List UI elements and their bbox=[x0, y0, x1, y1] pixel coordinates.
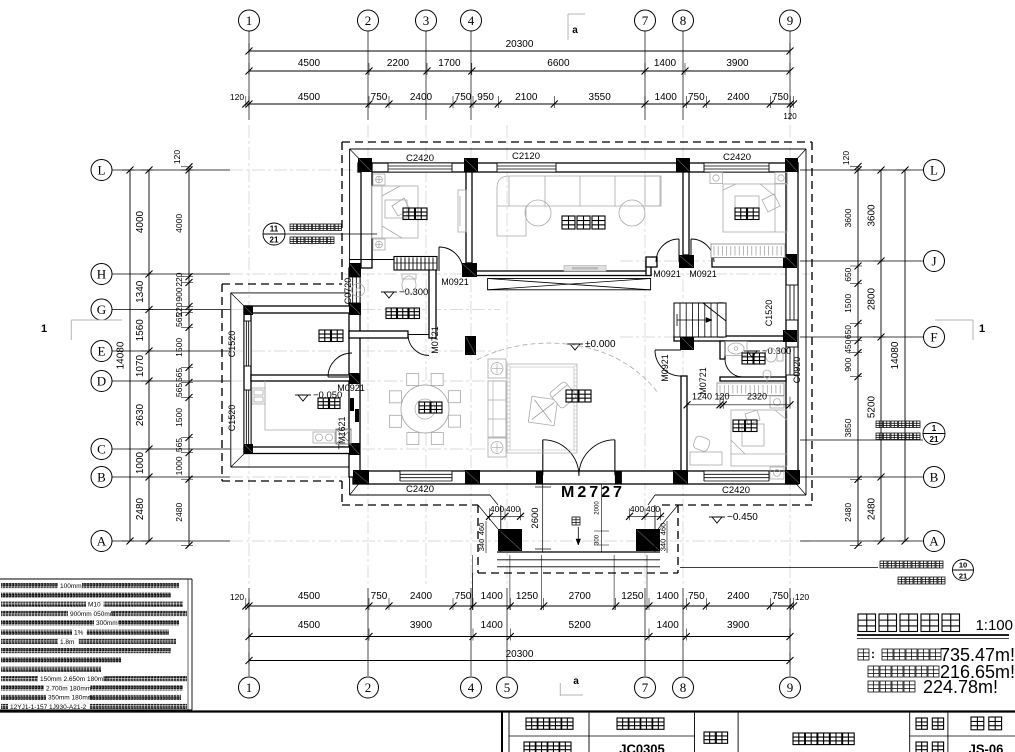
bathroom south wall bbox=[349, 331, 408, 338]
svg-text:2400: 2400 bbox=[410, 92, 433, 103]
svg-text:120: 120 bbox=[172, 150, 182, 164]
svg-text:B: B bbox=[930, 470, 939, 485]
dimension row bottom total bbox=[246, 649, 794, 665]
svg-text:5: 5 bbox=[504, 680, 511, 695]
porch dim 340 460 right rotated bbox=[659, 521, 668, 553]
svg-text:6600: 6600 bbox=[547, 58, 570, 69]
door M0721 duwei toilet bbox=[725, 376, 742, 378]
porch dim 400 400 left bbox=[486, 504, 524, 520]
axis circle 2 bottom bbox=[358, 677, 379, 698]
svg-text:2200: 2200 bbox=[387, 58, 410, 69]
svg-text:565: 565 bbox=[174, 368, 184, 382]
roof overhang dashed outline bbox=[222, 142, 812, 573]
callout 10/21 steps bottom bbox=[680, 560, 974, 581]
svg-text:a: a bbox=[572, 25, 578, 36]
svg-text:2: 2 bbox=[365, 13, 372, 28]
stair east stub wall bbox=[719, 303, 723, 337]
dimension row bottom axis bbox=[246, 620, 794, 641]
door TM1621 kitchen sliding bbox=[350, 398, 354, 411]
room label bathroom bbox=[386, 308, 420, 319]
porch extension lines to bottom dims bbox=[473, 555, 648, 610]
bed TL bedroom bbox=[372, 186, 418, 238]
level mark +-0.000 hall bbox=[567, 343, 583, 345]
table cell jianshi bbox=[971, 717, 1002, 730]
svg-text:−0.450: −0.450 bbox=[727, 512, 758, 523]
room label hall bbox=[566, 390, 591, 402]
svg-text:2480: 2480 bbox=[135, 497, 146, 520]
svg-text:2320: 2320 bbox=[747, 392, 767, 402]
porch column right bbox=[636, 529, 660, 551]
axis extension lines bbox=[112, 31, 923, 676]
svg-text:1500: 1500 bbox=[174, 408, 184, 427]
section mark 1 right bbox=[935, 320, 985, 340]
section mark a bottom bbox=[560, 683, 583, 696]
svg-text:3850: 3850 bbox=[843, 418, 853, 437]
svg-text:750: 750 bbox=[772, 591, 789, 602]
dimension col right axis bbox=[867, 167, 886, 545]
level mark -0.300 duwei bbox=[744, 350, 760, 352]
callout text outdoor steps bbox=[880, 561, 943, 568]
svg-text:900mm 050mm: 900mm 050mm bbox=[70, 611, 115, 618]
hall end table bottom bbox=[488, 438, 506, 457]
svg-text:4500: 4500 bbox=[298, 92, 321, 103]
column annex D junction bbox=[349, 373, 360, 384]
note area line 2 bbox=[868, 666, 939, 677]
svg-text:11: 11 bbox=[270, 225, 279, 234]
table cell tuming bbox=[704, 732, 728, 743]
svg-text:1400: 1400 bbox=[657, 620, 680, 631]
window C2420 south-right bbox=[704, 471, 769, 481]
door M2727 main entry double bbox=[542, 440, 544, 475]
svg-text:400: 400 bbox=[646, 504, 660, 514]
room label bedroom TR bbox=[735, 208, 759, 220]
svg-text:21: 21 bbox=[930, 435, 939, 444]
column axis8/L bbox=[676, 158, 690, 172]
window C1520 annex west upper bbox=[244, 321, 251, 366]
table cell tuzhi bianhao bbox=[524, 742, 571, 752]
axis circle B right bbox=[924, 467, 945, 488]
svg-text:120: 120 bbox=[783, 112, 797, 121]
svg-text:2000: 2000 bbox=[595, 501, 601, 515]
svg-text:1: 1 bbox=[932, 424, 937, 433]
svg-text:1%: 1% bbox=[74, 630, 84, 637]
svg-text:3900: 3900 bbox=[726, 58, 749, 69]
window C2120 north-mid bbox=[497, 163, 556, 172]
svg-text:8: 8 bbox=[680, 13, 687, 28]
svg-text:750: 750 bbox=[688, 591, 705, 602]
svg-text:14080: 14080 bbox=[890, 341, 901, 369]
wall between entertainment and bedroom TR bbox=[683, 172, 689, 255]
axis circle 1 top bbox=[239, 10, 260, 31]
svg-text:M0921: M0921 bbox=[660, 354, 670, 382]
window C0720 west (bathroom) bbox=[349, 277, 360, 303]
fridge X bbox=[336, 429, 351, 444]
svg-text:21: 21 bbox=[270, 236, 279, 245]
svg-text:900: 900 bbox=[843, 357, 853, 371]
svg-text:H: H bbox=[97, 267, 106, 282]
title block table bbox=[0, 712, 1015, 752]
axis circle 7 bottom bbox=[635, 677, 656, 698]
room label bedroom BR bbox=[733, 420, 757, 432]
axis circle 9 bottom bbox=[780, 677, 801, 698]
toilet(duwei) south wall bbox=[720, 377, 786, 381]
svg-text:1: 1 bbox=[41, 323, 47, 335]
axis grid center lines bbox=[230, 125, 810, 585]
room label entertainment bbox=[562, 216, 605, 229]
svg-text:1700: 1700 bbox=[438, 58, 461, 69]
svg-text:C2420: C2420 bbox=[723, 152, 751, 163]
column axis8/J bbox=[679, 255, 694, 268]
callout text see construction 3 bbox=[898, 577, 945, 584]
door M0921 pair left (entertainment) bbox=[678, 239, 680, 262]
svg-text:C0920: C0920 bbox=[792, 357, 802, 384]
svg-text:120: 120 bbox=[230, 92, 244, 102]
table cell yiceng pingmiantu small bbox=[793, 733, 854, 745]
dresser TL bbox=[458, 190, 466, 232]
bathroom north wall line bbox=[349, 259, 430, 261]
svg-text:2630: 2630 bbox=[135, 403, 146, 426]
room label dining bbox=[419, 402, 442, 413]
svg-text:M0921: M0921 bbox=[441, 277, 469, 287]
wall: east exterior bbox=[786, 163, 798, 484]
svg-text:340: 340 bbox=[477, 539, 486, 552]
svg-text:650: 650 bbox=[843, 267, 853, 281]
column axis4/L bbox=[464, 158, 478, 172]
axis circle L left bbox=[91, 160, 112, 181]
window C1520 annex west lower bbox=[244, 390, 251, 445]
porch dim 340 460 left rotated bbox=[477, 521, 486, 553]
svg-text:1400: 1400 bbox=[481, 620, 504, 631]
annex south wall bbox=[244, 447, 355, 454]
svg-text:1250: 1250 bbox=[621, 591, 644, 602]
column axis2/B bbox=[353, 470, 369, 484]
svg-text:JC0305: JC0305 bbox=[619, 742, 665, 752]
bathroom east wall bbox=[429, 260, 436, 339]
wall: west exterior lower bbox=[349, 268, 360, 477]
axis circle E left bbox=[91, 341, 112, 362]
table cell zhuanye bbox=[916, 718, 944, 729]
svg-text:M0721: M0721 bbox=[430, 326, 440, 354]
svg-text:21: 21 bbox=[959, 572, 967, 581]
svg-text:4500: 4500 bbox=[298, 620, 321, 631]
svg-text:M0921: M0921 bbox=[689, 269, 717, 279]
bed BR bedroom bbox=[690, 396, 787, 479]
svg-text:565: 565 bbox=[174, 313, 184, 327]
svg-text:5200: 5200 bbox=[867, 395, 878, 418]
svg-text:−0.300: −0.300 bbox=[399, 287, 428, 298]
column axis9/B bbox=[785, 470, 800, 484]
desk BR bbox=[690, 452, 722, 465]
window C2420 north-right bbox=[704, 163, 769, 172]
door M0921 under stairs bbox=[655, 349, 681, 351]
window C0920 east bbox=[786, 347, 798, 375]
wall: west exterior upper (bedroom) bbox=[361, 163, 372, 268]
svg-text:900: 900 bbox=[174, 287, 184, 301]
svg-text:950: 950 bbox=[477, 92, 494, 103]
svg-text:C2420: C2420 bbox=[406, 153, 434, 164]
svg-text:G: G bbox=[97, 302, 106, 317]
column axis8/F bbox=[680, 336, 694, 350]
svg-text:9: 9 bbox=[787, 13, 794, 28]
axis circle H left bbox=[91, 264, 112, 285]
svg-text:750: 750 bbox=[371, 591, 388, 602]
svg-text:120: 120 bbox=[841, 151, 851, 165]
svg-text:C: C bbox=[97, 442, 106, 457]
interior wall bedroom TL east bbox=[466, 172, 472, 263]
door M0921 bedroom TL bbox=[438, 247, 440, 271]
svg-text:460: 460 bbox=[477, 523, 486, 536]
svg-text:9: 9 bbox=[787, 680, 794, 695]
svg-text:10: 10 bbox=[959, 561, 967, 570]
axis circle 4 top bbox=[461, 10, 482, 31]
note area line 3 bbox=[868, 681, 915, 692]
section mark 1 left bbox=[41, 320, 122, 340]
wardrobe TL hatched bbox=[394, 257, 437, 271]
room label bedroom TL bbox=[403, 208, 427, 220]
column axis4/B bbox=[465, 470, 480, 484]
svg-text:120: 120 bbox=[714, 392, 729, 402]
svg-text:C2420: C2420 bbox=[722, 485, 750, 496]
svg-text:20300: 20300 bbox=[506, 649, 534, 660]
room label duwei bbox=[742, 353, 765, 364]
axis circle 4 bottom bbox=[461, 677, 482, 698]
svg-text:750: 750 bbox=[455, 591, 472, 602]
svg-text:2480: 2480 bbox=[174, 503, 184, 522]
svg-text:L: L bbox=[98, 163, 106, 178]
svg-text:a: a bbox=[573, 676, 579, 687]
callout text see construction 2 bbox=[876, 433, 920, 440]
svg-text:4: 4 bbox=[468, 13, 475, 28]
axis circle L right bbox=[924, 160, 945, 181]
axis circle 7 top bbox=[635, 10, 656, 31]
dimension col left axis bbox=[135, 167, 153, 545]
hall rug bbox=[507, 364, 577, 453]
window C2420 north-left bbox=[388, 163, 452, 172]
svg-text:20300: 20300 bbox=[506, 39, 534, 50]
svg-text:650: 650 bbox=[843, 325, 853, 339]
svg-text:C1520: C1520 bbox=[764, 300, 774, 327]
svg-text:2480: 2480 bbox=[867, 497, 878, 520]
svg-text:C1520: C1520 bbox=[227, 331, 237, 358]
svg-text:1000: 1000 bbox=[135, 451, 146, 474]
svg-text:2100: 2100 bbox=[515, 92, 538, 103]
sill entertainment bbox=[564, 266, 606, 272]
eave outline bbox=[231, 149, 806, 529]
svg-text:1: 1 bbox=[246, 13, 253, 28]
svg-text:460: 460 bbox=[659, 523, 668, 536]
svg-text:14080: 14080 bbox=[116, 341, 127, 369]
column annex SW bbox=[244, 444, 253, 453]
svg-text:4500: 4500 bbox=[298, 58, 321, 69]
svg-text:M0921: M0921 bbox=[653, 269, 681, 279]
window C2420 south-left bbox=[400, 471, 452, 481]
stairs bbox=[674, 303, 726, 337]
level mark -0.050 kitchen bbox=[295, 394, 311, 396]
dimension col left detail bbox=[172, 150, 193, 549]
svg-text:J: J bbox=[931, 254, 936, 269]
column axis2/L bbox=[358, 158, 372, 172]
svg-text:C2420: C2420 bbox=[406, 484, 434, 495]
corridor wall (axis J) segments bbox=[646, 257, 657, 267]
svg-text:2600: 2600 bbox=[530, 507, 541, 528]
callout 1/21 sanshui right bbox=[800, 423, 945, 445]
svg-text:1560: 1560 bbox=[135, 319, 146, 342]
svg-text:2480: 2480 bbox=[843, 503, 853, 522]
svg-text:7: 7 bbox=[642, 680, 649, 695]
window C1520 east bbox=[786, 285, 798, 320]
svg-text:2.700m 180mm: 2.700m 180mm bbox=[46, 685, 91, 692]
door M0721 bathroom bbox=[408, 334, 429, 336]
svg-text:D: D bbox=[97, 374, 106, 389]
porch mid dim 2000 bbox=[594, 484, 609, 552]
svg-text:A: A bbox=[97, 534, 107, 549]
svg-text:3: 3 bbox=[423, 13, 430, 28]
level mark -0.300 bathroom bbox=[381, 291, 397, 293]
svg-text:1400: 1400 bbox=[655, 92, 678, 103]
long rect with X below entertainment bbox=[488, 279, 651, 290]
svg-text:12YJ1-1-157 1J930-A21-2: 12YJ1-1-157 1J930-A21-2 bbox=[10, 704, 87, 711]
axis circle 1 bottom bbox=[239, 677, 260, 698]
svg-text:750: 750 bbox=[688, 92, 705, 103]
callout text sanshui detail bbox=[876, 421, 920, 428]
svg-text:150mm 2.650m 180mm: 150mm 2.650m 180mm bbox=[40, 676, 109, 683]
note area line 1 bbox=[858, 649, 869, 660]
svg-text:1500: 1500 bbox=[174, 338, 184, 357]
svg-text:750: 750 bbox=[772, 92, 789, 103]
title underline bbox=[857, 635, 1009, 639]
svg-text:300: 300 bbox=[595, 534, 601, 545]
annex west wall bbox=[244, 306, 251, 453]
axis circle D left bbox=[91, 371, 112, 392]
svg-text:M0921: M0921 bbox=[337, 383, 365, 393]
svg-text:7: 7 bbox=[642, 13, 649, 28]
column annex NE junction bbox=[349, 303, 361, 315]
column axis8/B bbox=[673, 470, 688, 484]
callout text see construction bbox=[290, 237, 334, 244]
wardrobe TR hatched bbox=[711, 244, 785, 258]
door M0921 pair right (bedroom TR) bbox=[690, 239, 692, 262]
kitchen counter bbox=[252, 381, 351, 444]
svg-text:2: 2 bbox=[365, 680, 372, 695]
stair south wall (axis F) bbox=[674, 336, 786, 341]
porch slab and steps bbox=[497, 505, 660, 567]
table cell gongcheng mingcheng bbox=[526, 718, 573, 729]
svg-text:F: F bbox=[930, 330, 937, 345]
hall sofa strip bbox=[488, 359, 577, 457]
wardrobe BR hatched bbox=[717, 383, 784, 396]
svg-text:4000: 4000 bbox=[174, 214, 184, 233]
axis circle 3 top bbox=[416, 10, 437, 31]
svg-text:1000: 1000 bbox=[174, 456, 184, 475]
axis circle J right bbox=[924, 251, 945, 272]
column annex NW bbox=[244, 306, 253, 315]
notes block border bbox=[0, 579, 192, 710]
room label chaihuo bbox=[319, 330, 343, 342]
bed TR bedroom bbox=[710, 173, 788, 233]
column axis9/F bbox=[783, 330, 797, 342]
svg-text:400: 400 bbox=[506, 504, 520, 514]
svg-text:B: B bbox=[97, 470, 106, 485]
svg-text:450: 450 bbox=[843, 339, 853, 353]
svg-text:2400: 2400 bbox=[727, 92, 750, 103]
interior dim line bedroom BR bbox=[684, 392, 794, 409]
bedroom BR west wall bbox=[681, 376, 687, 471]
axis circle 5 bottom bbox=[497, 677, 518, 698]
axis circle 8 top bbox=[673, 10, 694, 31]
column west/H junction bbox=[349, 263, 361, 277]
svg-text::: : bbox=[871, 647, 875, 661]
dimension row top detail bbox=[230, 92, 797, 121]
svg-text:1400: 1400 bbox=[657, 591, 680, 602]
svg-text:120: 120 bbox=[230, 592, 244, 602]
axis circle 8 bottom bbox=[673, 677, 694, 698]
svg-text:3600: 3600 bbox=[843, 208, 853, 227]
table cell zijian bieshu bbox=[617, 718, 664, 729]
svg-text:A: A bbox=[929, 534, 939, 549]
table cell tuhao bbox=[916, 742, 944, 752]
svg-text:1: 1 bbox=[979, 323, 985, 335]
svg-text:TM1621: TM1621 bbox=[337, 416, 347, 449]
svg-text:C1520: C1520 bbox=[227, 405, 237, 432]
svg-text:3550: 3550 bbox=[589, 92, 612, 103]
svg-text:1.8m: 1.8m bbox=[60, 639, 74, 646]
svg-text:565: 565 bbox=[174, 383, 184, 397]
svg-text:1500: 1500 bbox=[843, 294, 853, 313]
svg-text:1:100: 1:100 bbox=[975, 617, 1013, 634]
entertainment room south thin wall bbox=[471, 271, 651, 276]
axis circle C left bbox=[91, 439, 112, 460]
notes text rows bbox=[1, 583, 187, 711]
svg-text:1070: 1070 bbox=[135, 354, 146, 377]
duwei fixtures bbox=[725, 342, 783, 388]
svg-text:2700: 2700 bbox=[569, 591, 592, 602]
svg-text:4000: 4000 bbox=[135, 210, 146, 233]
svg-text:400: 400 bbox=[490, 504, 504, 514]
axis circle G left bbox=[91, 299, 112, 320]
svg-text:220: 220 bbox=[174, 272, 184, 286]
svg-text:M10: M10 bbox=[88, 602, 101, 609]
hall end table top bbox=[488, 359, 506, 378]
svg-text:1240: 1240 bbox=[692, 392, 712, 402]
room label kitchen bbox=[318, 398, 340, 409]
svg-text:2400: 2400 bbox=[727, 591, 750, 602]
svg-text:4500: 4500 bbox=[298, 591, 321, 602]
dining round table bbox=[389, 373, 460, 444]
level mark -0.450 porch bbox=[709, 516, 725, 518]
hall armchair bbox=[549, 381, 577, 409]
axis circle B left bbox=[91, 467, 112, 488]
svg-text:L: L bbox=[930, 163, 938, 178]
hall tv square bbox=[528, 396, 557, 425]
svg-text:3900: 3900 bbox=[410, 620, 433, 631]
dimension col right detail bbox=[841, 151, 862, 549]
svg-text:JS-06: JS-06 bbox=[969, 742, 1004, 752]
stove bbox=[313, 432, 335, 443]
svg-text:1: 1 bbox=[246, 680, 253, 695]
dimension col left total bbox=[116, 167, 135, 545]
axis circle A right bbox=[924, 531, 945, 552]
svg-text:565: 565 bbox=[174, 438, 184, 452]
sofa entertainment room bbox=[497, 176, 661, 236]
svg-text:5200: 5200 bbox=[569, 620, 592, 631]
title yiceng pingmiantu bbox=[858, 614, 960, 632]
annex partition wall (axis D) bbox=[251, 375, 355, 381]
svg-text:E: E bbox=[98, 344, 106, 359]
door M0921 chaihuo room bbox=[328, 376, 352, 378]
column axis9/L bbox=[785, 158, 798, 172]
callout text bathroom detail bbox=[290, 224, 342, 231]
axis circle 9 top bbox=[780, 10, 801, 31]
